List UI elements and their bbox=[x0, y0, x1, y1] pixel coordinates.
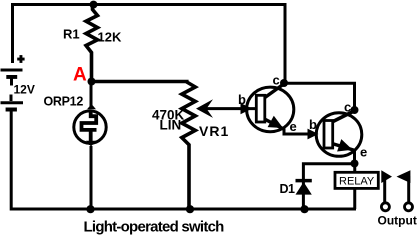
svg-text:b: b bbox=[238, 92, 246, 107]
svg-text:12K: 12K bbox=[98, 30, 122, 45]
svg-text:12V: 12V bbox=[14, 83, 35, 97]
svg-text:c: c bbox=[344, 100, 351, 115]
svg-text:Light-operated switch: Light-operated switch bbox=[84, 219, 225, 236]
svg-text:e: e bbox=[360, 145, 367, 160]
svg-text:b: b bbox=[309, 117, 317, 132]
svg-text:LIN: LIN bbox=[160, 118, 182, 133]
svg-text:A: A bbox=[73, 65, 87, 86]
svg-text:ORP12: ORP12 bbox=[44, 95, 84, 109]
svg-text:RELAY: RELAY bbox=[339, 176, 375, 188]
svg-text:Output: Output bbox=[378, 214, 417, 228]
svg-text:c: c bbox=[273, 73, 280, 88]
svg-text:R1: R1 bbox=[63, 27, 80, 42]
svg-text:D1: D1 bbox=[280, 182, 296, 196]
svg-text:e: e bbox=[290, 119, 297, 134]
svg-text:VR1: VR1 bbox=[199, 123, 229, 139]
